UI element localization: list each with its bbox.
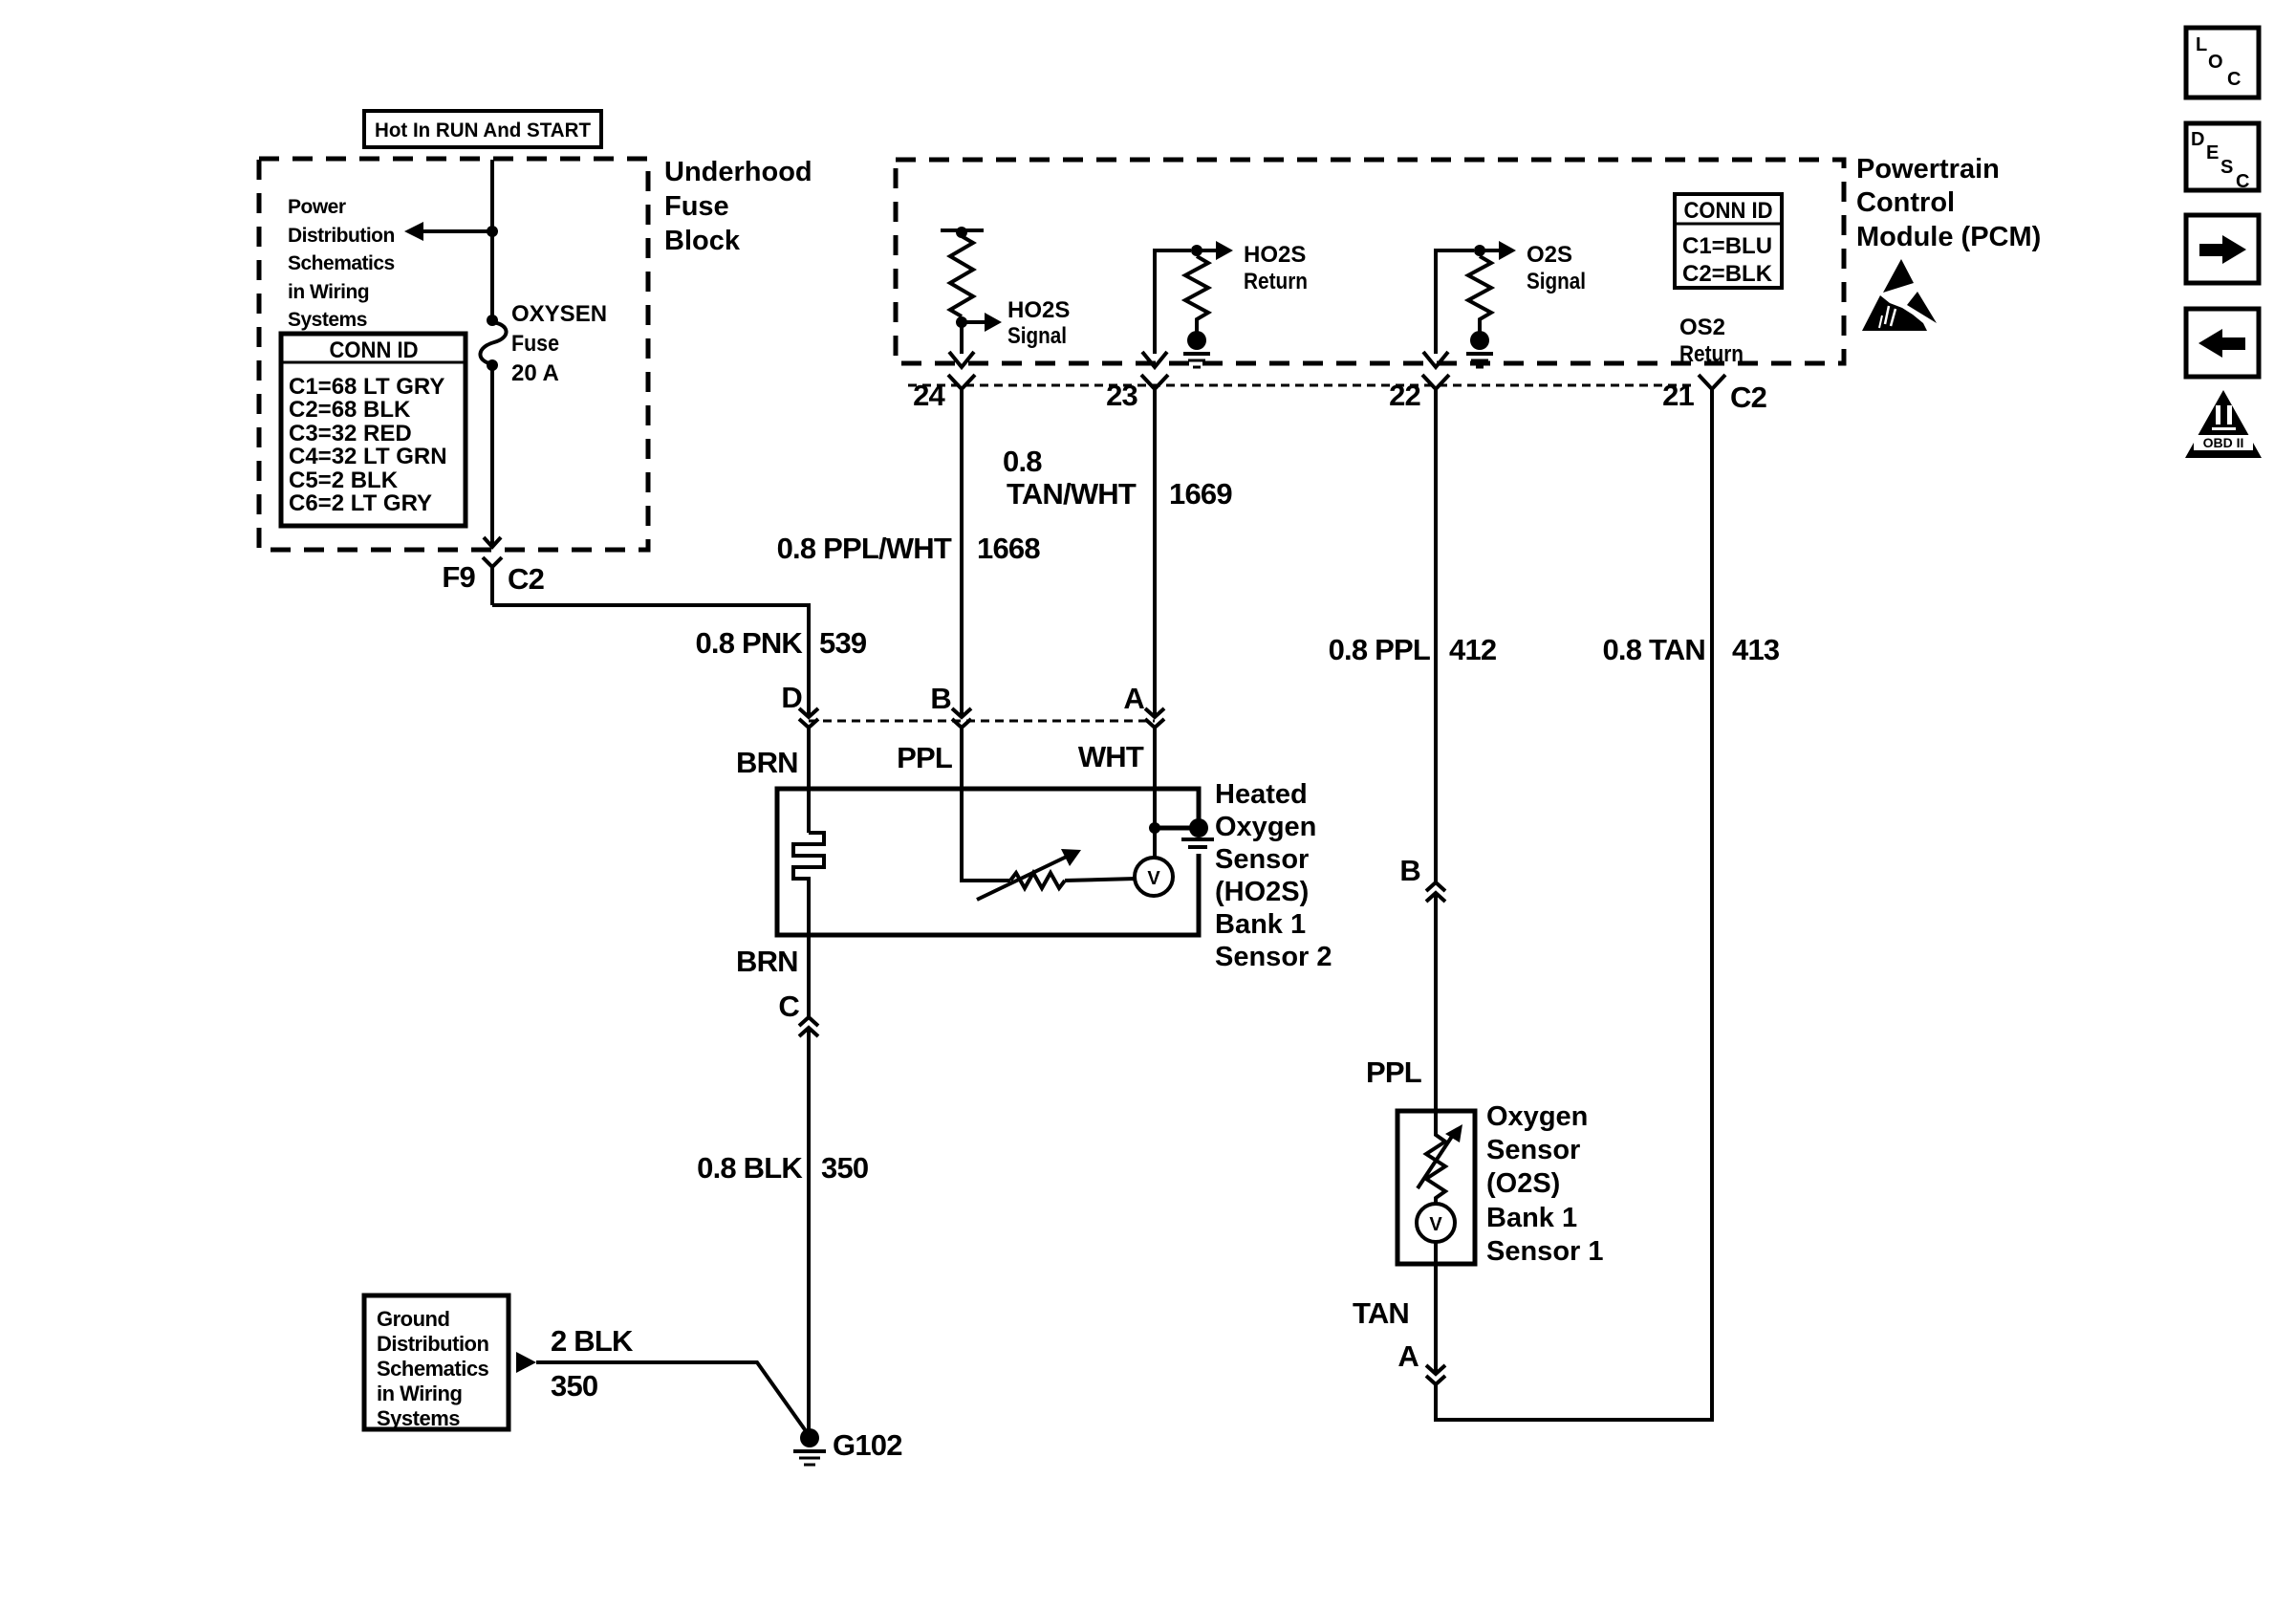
connector table CONN ID underhood	[281, 334, 466, 526]
connector D chevrons	[799, 708, 818, 728]
svg-text:Schematics: Schematics	[288, 252, 395, 274]
svg-text:D: D	[2191, 129, 2204, 150]
fuse OXYSEN F9 20A	[480, 315, 506, 371]
connector pin line PCM C2 dashed	[908, 384, 1694, 387]
wire connector C to G102	[807, 1028, 811, 1434]
svg-text:S: S	[2220, 157, 2233, 178]
svg-text:HO2S: HO2S	[1007, 297, 1070, 323]
svg-text:0.8 BLK: 0.8 BLK	[697, 1151, 803, 1185]
wire hot feed to fuse	[490, 160, 494, 318]
ground case HO2S	[1181, 818, 1214, 847]
svg-text:C3=32 RED: C3=32 RED	[289, 421, 412, 446]
svg-text:C1=68 LT GRY: C1=68 LT GRY	[289, 374, 444, 400]
connector B chevrons O2S	[1426, 882, 1445, 902]
svg-text:Distribution: Distribution	[288, 225, 395, 247]
powertrain control module dashed box	[896, 160, 1844, 363]
svg-text:C: C	[2227, 69, 2241, 90]
label Power Distribution Schematics in Wiring Systems	[288, 196, 395, 331]
wire arrow to power distribution schematics	[404, 222, 492, 241]
icon arrow right	[2186, 215, 2259, 283]
svg-text:413: 413	[1732, 633, 1780, 666]
svg-text:C5=2 BLK: C5=2 BLK	[289, 468, 399, 493]
svg-text:Powertrain: Powertrain	[1856, 154, 2000, 185]
svg-text:24: 24	[913, 379, 945, 412]
pin arrow at fuse block edge	[484, 537, 501, 547]
underhood fuse block dashed box	[259, 159, 648, 550]
svg-text:V: V	[1429, 1214, 1442, 1235]
ground G102	[793, 1428, 826, 1465]
svg-text:Systems: Systems	[288, 309, 367, 331]
wire pin 22 to connector B	[1434, 389, 1438, 882]
label Powertrain Control Module (PCM)	[1856, 154, 2041, 252]
label 0.8 TAN/WHT 1669 circuit	[1003, 445, 1232, 511]
svg-text:BRN: BRN	[736, 746, 798, 779]
pin 24 connector	[948, 375, 975, 389]
label Underhood Fuse Block	[664, 157, 812, 256]
label Oxygen Sensor (O2S) Bank 1 Sensor 1	[1486, 1101, 1604, 1267]
svg-text:Bank 1: Bank 1	[1215, 909, 1306, 940]
connector line D B A dashed	[809, 720, 1155, 723]
svg-text:Hot In RUN And START: Hot In RUN And START	[375, 119, 591, 141]
svg-text:BRN: BRN	[736, 945, 798, 978]
svg-text:(O2S): (O2S)	[1486, 1168, 1560, 1199]
svg-text:350: 350	[821, 1151, 868, 1185]
connector F9 C2	[483, 557, 502, 605]
svg-text:PPL: PPL	[897, 741, 952, 774]
node junction to power distribution	[487, 226, 498, 237]
svg-text:0.8 TAN: 0.8 TAN	[1602, 633, 1705, 666]
wire O2S cell to connector A	[1434, 1242, 1438, 1372]
pin arrow 24 at PCM edge	[949, 352, 974, 367]
svg-text:C1=BLU: C1=BLU	[1682, 233, 1772, 259]
svg-text:2 BLK: 2 BLK	[551, 1324, 634, 1358]
svg-text:Systems: Systems	[377, 1406, 460, 1430]
svg-text:Sensor 2: Sensor 2	[1215, 942, 1332, 972]
wire connector B to O2S sensor	[1434, 893, 1438, 1111]
pin 22 connector	[1422, 375, 1449, 389]
wire ground distribution to G102	[516, 1352, 809, 1435]
ground distribution reference box	[364, 1295, 509, 1430]
wire R1 to pin 24	[960, 322, 964, 354]
svg-text:CONN ID: CONN ID	[330, 337, 419, 363]
svg-text:F9: F9	[442, 560, 475, 594]
svg-text:HO2S: HO2S	[1244, 242, 1306, 268]
variable resistor heater control	[977, 849, 1136, 900]
svg-text:Sensor: Sensor	[1215, 844, 1309, 875]
svg-text:0.8 PNK: 0.8 PNK	[695, 626, 803, 660]
connector A chevrons	[1145, 708, 1164, 728]
svg-text:20 A: 20 A	[511, 360, 559, 386]
svg-text:OS2: OS2	[1679, 315, 1725, 340]
pin arrow 22 at PCM edge	[1423, 352, 1448, 367]
icon OBD II triangle	[2185, 390, 2262, 458]
resistor sensing element O2S	[1418, 1108, 1462, 1204]
node R1 bottom junction	[956, 316, 967, 328]
svg-text:1668: 1668	[977, 532, 1040, 565]
svg-text:E: E	[2206, 142, 2219, 163]
node A junction	[1149, 822, 1160, 834]
resistor R3 O2S signal	[1468, 256, 1491, 333]
svg-text:V: V	[1147, 868, 1160, 889]
svg-text:22: 22	[1389, 379, 1420, 412]
wire arrow O2S Signal	[1480, 241, 1516, 260]
svg-text:412: 412	[1449, 633, 1496, 666]
wire pin 23 to connector A	[1153, 389, 1157, 715]
svg-text:PPL: PPL	[1366, 1055, 1421, 1089]
icon LOC	[2186, 28, 2259, 98]
wire D to heater	[807, 728, 811, 833]
ESD sensitive device symbol	[1862, 259, 1937, 331]
svg-text:539: 539	[819, 626, 867, 660]
ground internal PCM R3	[1466, 331, 1493, 367]
icon arrow left	[2186, 309, 2259, 377]
wire arrow HO2S Return	[1197, 241, 1233, 260]
svg-text:Signal: Signal	[1007, 323, 1067, 349]
label 0.8 PPL/WHT 1668 circuit	[777, 532, 1041, 565]
svg-text:Bank 1: Bank 1	[1486, 1203, 1577, 1233]
svg-text:A: A	[1397, 1339, 1419, 1373]
svg-text:L: L	[2196, 34, 2207, 55]
wire heater to connector C	[807, 935, 811, 1017]
icon DESC	[2186, 123, 2259, 192]
pin arrow 23 at PCM edge	[1142, 352, 1167, 367]
svg-text:Block: Block	[664, 226, 741, 256]
svg-text:C6=2 LT GRY: C6=2 LT GRY	[289, 490, 432, 516]
wire fuse to F9	[490, 365, 494, 545]
svg-text:Signal: Signal	[1527, 269, 1586, 294]
svg-text:TAN/WHT: TAN/WHT	[1007, 477, 1137, 511]
svg-text:Sensor: Sensor	[1486, 1135, 1580, 1165]
svg-text:C: C	[778, 990, 799, 1023]
svg-text:TAN: TAN	[1353, 1296, 1409, 1330]
svg-text:Schematics: Schematics	[377, 1357, 489, 1381]
svg-text:Oxygen: Oxygen	[1215, 812, 1316, 842]
svg-text:Module (PCM): Module (PCM)	[1856, 222, 2041, 252]
ground internal PCM R2	[1183, 331, 1210, 367]
node R3 top junction	[1474, 245, 1485, 256]
wire pin 24 to connector B	[960, 389, 964, 715]
resistor R2 HO2S return	[1185, 256, 1208, 333]
label HO2S Signal	[1007, 297, 1070, 349]
oxygen sensor O2S box	[1397, 1111, 1475, 1264]
svg-text:Oxygen: Oxygen	[1486, 1101, 1588, 1132]
svg-text:21: 21	[1662, 379, 1694, 412]
svg-text:Control: Control	[1856, 187, 1955, 218]
svg-text:WHT: WHT	[1078, 740, 1144, 773]
pin 21 connector	[1699, 375, 1725, 389]
connector C chevrons	[799, 1017, 818, 1036]
pin 23 connector	[1141, 375, 1168, 389]
connector table CONN ID PCM	[1675, 194, 1782, 288]
svg-text:Distribution: Distribution	[377, 1332, 488, 1356]
wire F9 to connector D	[492, 605, 809, 715]
label OS2 Return	[1679, 315, 1744, 367]
svg-text:C2=68 BLK: C2=68 BLK	[289, 397, 411, 423]
svg-text:0.8 PPL/WHT: 0.8 PPL/WHT	[777, 532, 952, 565]
resistor R1 HO2S signal pullup	[941, 227, 984, 316]
connector B chevrons	[952, 708, 971, 728]
svg-text:B: B	[930, 682, 951, 715]
svg-text:in Wiring: in Wiring	[288, 281, 369, 303]
wire pin 23 riser	[1155, 250, 1191, 354]
svg-text:23: 23	[1106, 379, 1137, 412]
heater element B1S2	[793, 833, 824, 935]
svg-text:O: O	[2208, 52, 2223, 73]
svg-text:0.8 PPL: 0.8 PPL	[1329, 633, 1430, 666]
svg-text:C2=BLK: C2=BLK	[1682, 261, 1773, 287]
svg-text:OBD II: OBD II	[2203, 435, 2244, 450]
connector A chevrons O2S	[1426, 1365, 1445, 1384]
svg-text:1669: 1669	[1169, 477, 1232, 511]
wire junction to case ground	[1155, 826, 1195, 831]
svg-text:CONN ID: CONN ID	[1684, 198, 1773, 224]
wire arrow HO2S Signal	[962, 313, 1002, 332]
label Heated Oxygen Sensor (HO2S) Bank 1 Sensor 2	[1215, 779, 1332, 972]
svg-text:Fuse: Fuse	[664, 191, 729, 222]
wire connector A to pin 21 return	[1436, 389, 1712, 1420]
svg-text:in Wiring: in Wiring	[377, 1382, 462, 1405]
voltage source V cell O2S	[1417, 1204, 1455, 1242]
svg-text:Return: Return	[1244, 269, 1308, 294]
wire B to heater control	[962, 728, 1010, 881]
svg-text:Underhood: Underhood	[664, 157, 812, 187]
svg-text:C2: C2	[508, 562, 544, 596]
label box Hot In RUN And START	[364, 111, 601, 147]
voltage source V cell HO2S	[1135, 858, 1173, 896]
wire pin 22 riser	[1436, 250, 1474, 354]
heated oxygen sensor HO2S box	[777, 789, 1199, 935]
svg-text:B: B	[1399, 854, 1420, 887]
svg-text:(HO2S): (HO2S)	[1215, 877, 1309, 907]
svg-text:Return: Return	[1679, 341, 1744, 367]
svg-text:G102: G102	[833, 1428, 902, 1462]
label O2S Signal	[1527, 242, 1586, 294]
svg-text:Power: Power	[288, 196, 346, 218]
svg-text:Sensor 1: Sensor 1	[1486, 1236, 1604, 1267]
svg-text:Fuse: Fuse	[511, 331, 559, 357]
label HO2S Return	[1244, 242, 1308, 294]
svg-text:350: 350	[551, 1369, 597, 1403]
node R2 top junction	[1191, 245, 1202, 256]
wire A to sensor cell	[1153, 728, 1157, 858]
svg-text:Heated: Heated	[1215, 779, 1308, 810]
svg-text:C2: C2	[1730, 381, 1766, 414]
svg-text:0.8: 0.8	[1003, 445, 1042, 478]
label OXYSEN Fuse 20 A	[511, 301, 607, 386]
svg-text:C: C	[2236, 171, 2249, 192]
svg-text:C4=32 LT GRN: C4=32 LT GRN	[289, 444, 447, 469]
svg-text:A: A	[1123, 682, 1144, 715]
svg-text:Ground: Ground	[377, 1307, 449, 1331]
svg-text:O2S: O2S	[1527, 242, 1572, 268]
svg-text:OXYSEN: OXYSEN	[511, 301, 607, 327]
